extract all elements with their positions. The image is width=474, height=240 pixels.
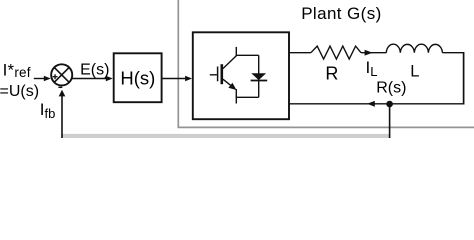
svg-text:Plant G(s): Plant G(s) (301, 4, 382, 23)
resistor R (311, 46, 361, 59)
wire with current arrow IL (361, 52, 386, 54)
feedback bottom rail (partially cut) (61, 134, 390, 138)
node junction dot (386, 101, 393, 108)
svg-text:Ifb: Ifb (40, 100, 56, 121)
summing junction circle (51, 64, 72, 85)
IGBT collector stub (235, 47, 237, 56)
svg-text:R: R (325, 64, 338, 84)
diode D1 (251, 73, 266, 80)
IGBT main bar (221, 64, 224, 84)
grey plant enclosure box (178, 0, 474, 127)
IGBT collector diagonal (223, 56, 236, 69)
svg-text:H(s): H(s) (120, 67, 155, 88)
IGBT gate bar (217, 67, 219, 82)
svg-text:E(s): E(s) (80, 61, 109, 78)
converter box (193, 32, 289, 119)
wire converter to resistor (289, 52, 311, 54)
diode vertical wire (258, 55, 260, 97)
svg-text:R(s): R(s) (376, 80, 406, 97)
IGBT emitter stub (235, 89, 237, 104)
right vertical wire (463, 52, 465, 105)
bottom rail (236, 96, 259, 98)
svg-text:I*ref: I*ref (3, 61, 31, 80)
feedback wire down from dot (389, 104, 391, 138)
wire inductor to right corner (442, 52, 463, 54)
plus sign (53, 76, 58, 78)
inductor L (386, 44, 442, 52)
IGBT emitter diagonal with arrow (223, 79, 232, 86)
svg-text:=U(s): =U(s) (0, 83, 39, 100)
svg-text:L: L (410, 63, 419, 81)
top rail (236, 54, 259, 56)
svg-text:IL: IL (366, 58, 378, 79)
wire E(s): junction to H(s) (72, 78, 107, 80)
block H(s) (114, 53, 162, 102)
feedback up arrow into junction (61, 96, 63, 139)
IGBT gate lead (210, 74, 217, 76)
minus sign (58, 86, 62, 88)
wire input to summing junction (34, 78, 45, 80)
return wire with left arrow (289, 103, 464, 105)
wire H(s) to converter (162, 78, 186, 80)
